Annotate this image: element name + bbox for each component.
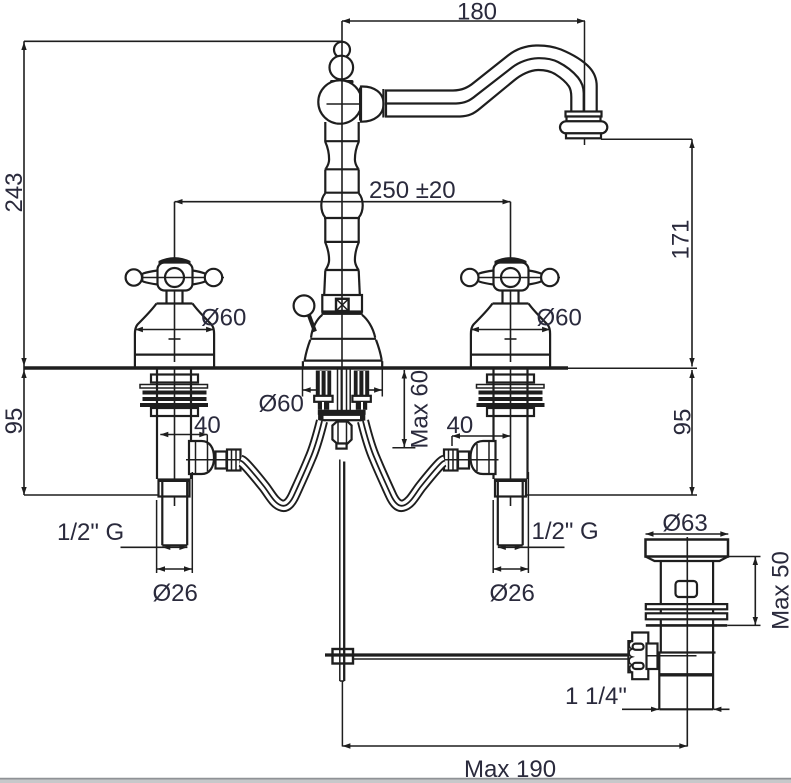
central rod collar <box>336 444 346 449</box>
right valve centerline <box>510 370 512 507</box>
svg-text:Ø60: Ø60 <box>537 305 582 332</box>
central bell tier 2 <box>304 340 383 361</box>
dimension 40 left <box>160 432 207 445</box>
svg-text:1/2" G: 1/2" G <box>57 519 124 546</box>
right valve extension lines <box>493 472 528 573</box>
pop-up lever ball <box>294 295 315 316</box>
svg-text:243: 243 <box>1 172 28 212</box>
dimension Max 50 <box>753 557 758 626</box>
dimension 171 right <box>689 139 694 366</box>
left valve outlet connector <box>216 452 227 469</box>
spout tube middle line <box>385 58 584 111</box>
spout body ball <box>318 80 361 123</box>
extension line 180 right (through spout outlet) <box>584 21 586 145</box>
right valve thread stripe outline <box>477 385 545 389</box>
knurl teeth left edge <box>629 641 632 672</box>
drain flange <box>646 540 729 557</box>
right valve outlet dome <box>471 441 496 474</box>
drain washer ring 2 <box>646 613 727 619</box>
central right shank nut <box>352 396 370 402</box>
right valve thread stripes dark <box>479 391 543 395</box>
right handle left ball <box>461 269 478 286</box>
pop-up rod junction square <box>333 649 354 664</box>
deck line <box>24 366 568 370</box>
column segment C <box>324 170 360 193</box>
dimension diam 26 left <box>157 566 192 571</box>
drain vertical centerline <box>686 537 688 747</box>
extension line 95 bottom right <box>527 494 698 496</box>
right handle hub <box>494 263 529 291</box>
drain side hole <box>676 581 698 597</box>
left handle left neck <box>142 271 157 285</box>
spout outlet ring 2 <box>567 117 601 122</box>
right handle center tick <box>505 338 517 340</box>
spout ball joint <box>361 86 384 121</box>
central left shank threaded stud <box>316 371 331 396</box>
right flexible hose <box>363 421 445 506</box>
extension line top left (243 top) <box>24 40 342 42</box>
column segment D bulge <box>321 193 362 218</box>
drain tailpipe bottom <box>659 708 713 710</box>
right handle front ball <box>501 268 520 287</box>
left valve outlet dome <box>189 441 214 474</box>
drain body walls <box>661 561 713 652</box>
svg-text:Max 50: Max 50 <box>768 551 791 630</box>
right handle cross bar line <box>462 277 561 279</box>
drain tailpipe thick seam <box>659 673 713 676</box>
drain rod centerline inside body <box>647 655 697 657</box>
svg-text:Ø60: Ø60 <box>201 305 246 332</box>
central bracket band <box>319 415 364 420</box>
spout tube bottom line <box>385 70 571 117</box>
svg-text:40: 40 <box>447 412 474 439</box>
column block thick base <box>322 312 363 315</box>
left valve tailpiece <box>162 497 187 546</box>
central connection block octagon <box>332 422 351 444</box>
left handle cap <box>159 257 191 265</box>
column segment G <box>324 271 360 295</box>
left valve collar <box>159 480 190 497</box>
left valve centerline <box>174 370 176 507</box>
spout outlet ring 3 <box>566 133 601 138</box>
dimension 243 vertical line left <box>21 41 26 495</box>
left handle right ball <box>205 269 222 286</box>
left handle right neck <box>193 271 206 285</box>
column segment B waist <box>325 142 360 170</box>
drain tailpipe upper walls <box>659 653 713 710</box>
right handle stem <box>503 291 519 304</box>
right valve outlet connector <box>458 452 469 469</box>
dimension diam 60 left handle <box>135 327 214 332</box>
right valve top nut <box>487 375 534 383</box>
left valve hose nut <box>227 450 241 471</box>
extension line Max 190 left <box>341 681 343 747</box>
central right shank threaded stud <box>354 371 369 396</box>
right valve hose nut <box>444 450 458 471</box>
left handle cross bar line <box>126 277 225 279</box>
spout outlet torus bulge <box>560 121 607 133</box>
central left shank nut <box>314 396 332 402</box>
column segment A <box>324 122 360 141</box>
right valve collar <box>495 480 526 497</box>
svg-text:171: 171 <box>668 219 695 259</box>
svg-text:Ø26: Ø26 <box>490 580 535 607</box>
central right shank lower stud <box>356 402 367 410</box>
spout joint thick line <box>359 88 363 121</box>
left handle centerline <box>174 202 176 362</box>
svg-text:180: 180 <box>457 0 497 26</box>
svg-text:95: 95 <box>670 409 697 436</box>
right valve body walls <box>494 370 528 480</box>
drain flange taper <box>646 557 729 562</box>
left valve outlet centerline <box>186 459 242 461</box>
left valve top nut <box>151 375 198 383</box>
central pop-up rod housing lines <box>338 370 351 422</box>
svg-text:40: 40 <box>194 412 221 439</box>
dimension diam 60 right handle <box>471 327 550 332</box>
column mounting block <box>322 295 362 312</box>
right valve lock nut <box>487 408 534 416</box>
pop-up horizontal rod thin companion <box>354 658 629 660</box>
left valve thread stripe outline <box>140 385 208 389</box>
spout outlet ring 1 <box>566 112 602 117</box>
svg-text:95: 95 <box>1 408 28 435</box>
pop-up horizontal rod thick <box>325 653 629 656</box>
svg-text:Ø60: Ø60 <box>259 391 304 418</box>
left handle front ball <box>165 268 184 287</box>
extension line spout outlet to 171 <box>601 138 692 140</box>
dimension Max 60 <box>392 370 415 448</box>
dimension half inch G right <box>498 545 565 550</box>
dimension 1 1/4 inch <box>622 707 730 712</box>
right valve tailpiece <box>498 497 523 546</box>
deck extension line thin right <box>566 367 697 369</box>
drain body step line <box>658 651 716 653</box>
knurl slots <box>633 644 644 650</box>
svg-text:1/2" G: 1/2" G <box>532 518 599 545</box>
footer gray bar <box>0 780 791 783</box>
left handle bell <box>135 304 214 367</box>
spout body collar cap <box>330 80 354 84</box>
dimension 40 right <box>452 433 511 446</box>
dimension diam 63 <box>646 531 729 536</box>
spout body ball horizontal centerline <box>327 103 385 105</box>
dimension 95 right <box>689 370 694 495</box>
central bell base band <box>303 361 382 367</box>
right handle cap <box>495 257 527 265</box>
left handle stem <box>167 291 183 304</box>
left valve body walls <box>157 370 191 480</box>
extension line Max 50 top <box>728 556 761 558</box>
extension line 95 bottom left <box>24 494 158 496</box>
right handle bell <box>471 304 550 367</box>
dimension half inch G left <box>121 545 188 550</box>
dimension diam 60 central <box>303 370 383 397</box>
central bell tier 1 <box>310 315 376 339</box>
dimension 250 +-20 <box>175 199 511 204</box>
left handle center tick <box>169 338 181 340</box>
spout body finial ball <box>330 56 354 80</box>
dimension diam 26 right <box>493 566 528 571</box>
left valve thread stripes dark <box>143 391 207 395</box>
right handle centerline <box>510 202 512 362</box>
svg-text:250 ±20: 250 ±20 <box>369 177 456 204</box>
central left shank lower stud <box>318 402 329 410</box>
left valve extension lines <box>157 472 193 573</box>
svg-text:Ø26: Ø26 <box>153 580 198 607</box>
left flexible hose <box>241 421 323 506</box>
footer gray rule <box>0 778 791 780</box>
right handle left neck <box>478 271 493 285</box>
dimension Max 190 <box>342 743 687 748</box>
drain washer ring 1 <box>646 604 727 609</box>
drain wide washer line <box>646 624 727 627</box>
knurled nut stub <box>647 644 658 670</box>
svg-text:Max 60: Max 60 <box>407 370 434 449</box>
pop-up lever stem <box>309 314 316 332</box>
extension line Max 50 bottom <box>727 624 760 626</box>
pop-up vertical rod twin lines <box>340 460 344 682</box>
right valve outlet centerline <box>443 459 499 461</box>
left valve outlet dome lines <box>196 442 208 474</box>
column segment E <box>324 219 360 242</box>
spout tube top line <box>385 45 597 111</box>
dimension 180 top <box>342 18 585 23</box>
svg-text:Ø63: Ø63 <box>662 510 707 537</box>
left handle left ball <box>126 269 142 285</box>
left handle hub <box>158 263 193 291</box>
spout joint flats <box>382 89 384 118</box>
right handle right ball <box>541 269 558 286</box>
svg-text:1 1/4": 1 1/4" <box>565 683 627 710</box>
diverter screw box with X <box>336 299 349 311</box>
drain knurled nut <box>628 633 648 680</box>
column segment F waist <box>325 243 360 271</box>
central bracket bar dark <box>318 410 366 415</box>
right handle right neck <box>529 271 542 285</box>
central column centerline <box>341 21 343 449</box>
left valve lock nut <box>151 408 198 416</box>
right valve outlet dome lines <box>477 442 489 474</box>
spout body top finial small ball <box>334 42 350 58</box>
